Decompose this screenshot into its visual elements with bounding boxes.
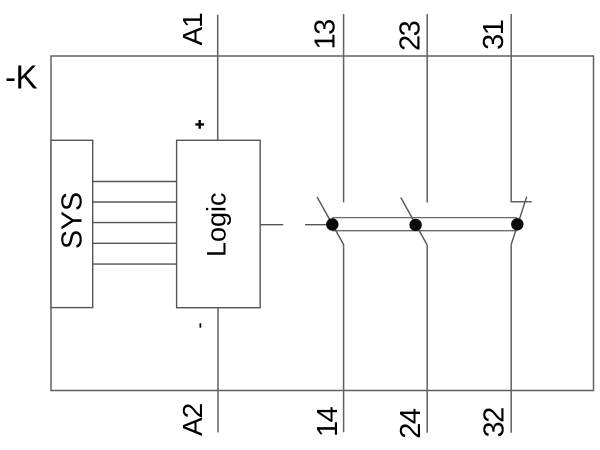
wire sys-logic 1 <box>93 181 177 183</box>
svg-text:14: 14 <box>312 406 344 437</box>
wire sys-logic 3 <box>93 222 177 224</box>
wire sys-logic 5 <box>93 263 177 265</box>
wire terminal A1 <box>217 15 219 141</box>
svg-text:A2: A2 <box>177 403 208 436</box>
NO contact lever 13-14 <box>317 197 344 245</box>
svg-text:24: 24 <box>395 408 427 439</box>
wire terminal 23 <box>426 14 428 203</box>
contact dot 23-24 <box>409 219 421 231</box>
contact dot 31-32 <box>511 218 523 230</box>
wire terminal A2 <box>217 308 219 433</box>
svg-text:SYS: SYS <box>56 192 88 249</box>
svg-text:Logic: Logic <box>202 192 232 257</box>
svg-text:-K: -K <box>5 59 37 96</box>
wire terminal 14 <box>343 245 345 433</box>
wire terminal 31 <box>511 14 532 202</box>
wire terminal 13 <box>343 14 345 202</box>
mechanical linkage dash 2 <box>305 224 326 226</box>
svg-text:A1: A1 <box>177 13 208 46</box>
plus polarity mark <box>195 120 204 129</box>
relay enclosure outline -K <box>51 56 594 391</box>
svg-text:13: 13 <box>309 20 341 50</box>
NO contact lever 23-24 <box>401 198 427 246</box>
contact bridge bar upper <box>332 217 517 219</box>
SYS block <box>51 140 93 307</box>
minus polarity mark <box>200 323 202 327</box>
svg-text:31: 31 <box>478 20 510 50</box>
contact dot 13-14 <box>326 218 338 230</box>
wire terminal 24 <box>426 245 428 433</box>
wire terminal 32 <box>510 244 512 433</box>
svg-text:23: 23 <box>394 21 426 51</box>
NC contact lever 31-32 <box>511 197 526 245</box>
contact bridge bar lower <box>332 230 517 232</box>
svg-text:32: 32 <box>479 408 511 438</box>
mechanical linkage dash 1 <box>260 224 283 226</box>
logic block U1 <box>177 140 261 307</box>
wire sys-logic 4 <box>93 242 177 244</box>
wire sys-logic 2 <box>93 201 177 203</box>
